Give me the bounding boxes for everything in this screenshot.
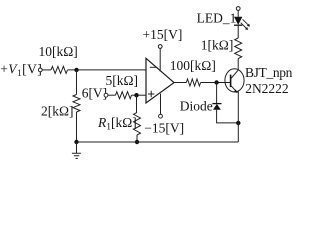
svg-text:2[kΩ]: 2[kΩ] xyxy=(41,103,74,118)
wire 10k to op-amp inverting input xyxy=(68,69,147,71)
ground rail wire xyxy=(77,141,239,143)
svg-text:5[kΩ]: 5[kΩ] xyxy=(106,73,139,88)
wire node down to R 2k xyxy=(76,70,78,95)
node A junction xyxy=(214,80,218,84)
wire R1 to ground rail xyxy=(136,135,138,142)
resistor R 1k xyxy=(235,38,242,59)
ground xyxy=(72,142,81,158)
wire 1k to LED xyxy=(237,25,239,38)
svg-text:R1[kΩ]: R1[kΩ] xyxy=(97,115,137,133)
wire node B down to R1 xyxy=(136,95,139,112)
svg-text:+V1[V]: +V1[V] xyxy=(0,61,42,79)
emitter arrowhead xyxy=(234,90,238,94)
node ground junction xyxy=(74,140,78,144)
resistor R 2k xyxy=(73,95,80,113)
op-amp minus sign xyxy=(150,66,156,68)
wire op-amp output to R 100k xyxy=(174,82,186,84)
op-amp U1 xyxy=(146,58,174,103)
terminal Vi xyxy=(38,68,42,72)
terminal 6V xyxy=(104,93,108,97)
op-amp plus sign xyxy=(148,91,154,97)
svg-text:+15[V]: +15[V] xyxy=(143,27,183,42)
svg-text:6[V]: 6[V] xyxy=(82,85,108,100)
svg-text:LED_1: LED_1 xyxy=(197,11,237,26)
svg-text:1[kΩ]: 1[kΩ] xyxy=(201,37,234,52)
transistor base bar xyxy=(230,75,232,88)
node emitter rail junction xyxy=(236,121,240,125)
wire Vi to R 10k xyxy=(42,69,51,71)
transistor emitter lead xyxy=(231,85,238,93)
wire 6V to R 5k xyxy=(108,94,116,96)
wire LED to supply terminal xyxy=(237,11,239,17)
terminal -15V xyxy=(159,114,163,118)
node R1 rail junction xyxy=(135,140,139,144)
svg-text:10[kΩ]: 10[kΩ] xyxy=(39,44,78,59)
wire 5k to op-amp non-inverting input xyxy=(132,94,147,96)
wire -15V supply xyxy=(160,94,162,115)
wire 100k to BJT base xyxy=(201,82,231,84)
LED D2 xyxy=(234,24,242,26)
resistor R1 xyxy=(134,112,141,135)
transistor Q1 body xyxy=(225,69,244,92)
transistor collector lead xyxy=(231,59,239,80)
svg-text:Diode: Diode xyxy=(180,98,213,113)
resistor R 5k xyxy=(116,92,132,99)
wire diode to rail junction xyxy=(217,110,239,123)
wire emitter down to rail xyxy=(237,91,239,142)
resistor R 100k xyxy=(186,79,200,86)
svg-text:−15[V]: −15[V] xyxy=(144,121,184,136)
terminal +15V xyxy=(158,45,162,49)
wire 2k to ground rail xyxy=(76,112,78,142)
svg-text:2N2222: 2N2222 xyxy=(245,81,289,96)
wire node A down to diode xyxy=(216,83,218,104)
resistor R 10k xyxy=(51,66,68,73)
node junction top-left xyxy=(74,68,78,72)
node B junction xyxy=(134,93,138,97)
svg-text:BJT_npn: BJT_npn xyxy=(245,65,293,80)
terminal LED supply xyxy=(236,7,240,11)
diode D1 xyxy=(212,103,221,105)
wire +15V supply xyxy=(159,49,161,72)
LED emission arrows xyxy=(241,19,249,28)
svg-text:100[kΩ]: 100[kΩ] xyxy=(170,58,216,73)
